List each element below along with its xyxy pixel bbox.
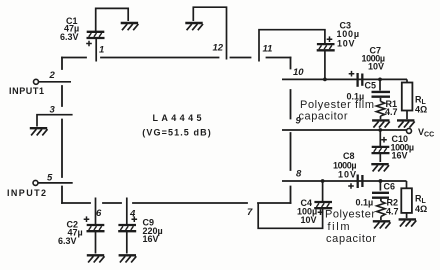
wire pin9 Vcc line [282,129,406,131]
svg-text:2: 2 [49,70,56,81]
ground C2 [87,255,105,262]
node pin10/C5 junction [378,78,382,82]
resistor R1 zigzag [376,101,384,116]
wire RL2 to ground [406,213,408,218]
svg-text:12: 12 [213,43,224,54]
svg-text:8: 8 [296,169,302,180]
IC LA4445 top edge [62,57,291,59]
capacitor C2 [87,225,105,231]
wire pin5 input2 [38,182,73,184]
plus C4 [318,209,324,215]
ground R1 [372,120,390,127]
plus C1 [86,41,92,47]
wire RL2 stub [406,181,408,188]
plus C10 [381,137,387,143]
svg-text:7: 7 [247,207,253,218]
svg-text:6.3V: 6.3V [60,32,79,42]
svg-text:11: 11 [263,44,273,55]
wire pin4 lead [126,198,128,225]
wire C6 lead [379,181,381,191]
wire C9 to ground [126,232,128,254]
svg-text:Polyester film: Polyester film [300,99,374,111]
svg-text:16V: 16V [392,151,408,161]
svg-text:4Ω: 4Ω [415,105,427,115]
svg-text:INPUT1: INPUT1 [9,86,44,96]
wire pin12 to ground2 [193,7,226,59]
svg-text:10V: 10V [301,215,317,225]
wire C10 to ground [379,154,381,163]
terminal INPUT2 [33,180,38,185]
wire C3 bottom to pin10 net [324,51,326,80]
node pin8/C4 junction [321,179,325,183]
svg-text:16V: 16V [143,234,159,244]
IC left edge [61,58,63,204]
ground R2 [373,221,391,228]
wire pin10 output net [282,78,407,80]
svg-text:INPUT2: INPUT2 [7,188,46,198]
wire pin8 output net [282,180,407,182]
plus C3 [327,36,333,42]
wire pin11 to C3 [259,30,325,62]
svg-text:3: 3 [50,105,56,116]
plus C7 [349,71,355,77]
svg-text:5: 5 [47,173,53,184]
svg-text:(VG=51.5 dB): (VG=51.5 dB) [142,128,211,138]
ground C10 [371,164,389,171]
svg-text:LA4445: LA4445 [153,113,204,123]
terminal INPUT1 [34,79,39,84]
svg-text:VCC: VCC [418,127,434,139]
resistor R2 zigzag [377,201,385,216]
wire C4 top lead [322,181,324,202]
node pin8/C6 junction [379,179,383,183]
svg-text:6: 6 [96,208,102,219]
svg-text:0.1µ: 0.1µ [356,198,374,208]
resistor RL2 box [401,188,412,213]
plus C8 [348,183,354,189]
wire C2 to ground [95,232,97,254]
resistor RL1 box [402,83,413,111]
wire C1 top to ground1 [96,8,129,31]
ground pin12 [185,23,203,30]
svg-text:Polyester: Polyester [325,209,375,221]
node Vcc/C10 junction [378,128,382,132]
svg-text:C5: C5 [365,81,377,91]
wire pin1 lead [95,39,97,62]
capacitor C10 [372,147,390,153]
node pin10/C3 junction [323,78,327,82]
ground RL1 [397,120,415,127]
ground C1 [121,23,139,30]
ground RL2 [399,219,417,226]
svg-text:6.3V: 6.3V [58,236,77,246]
wire pin2 input1 [39,81,71,83]
capacitor C7 series [358,73,363,87]
svg-text:4.7: 4.7 [386,207,399,217]
IC right edge [290,58,292,204]
wire RL1 stub [406,79,408,82]
capacitor C5 film [372,92,391,97]
capacitor C9 [118,225,136,231]
wire C6 to R2 [380,198,382,201]
wire C10 lead [379,130,381,146]
svg-text:10V: 10V [337,39,355,49]
svg-text:4Ω: 4Ω [415,204,427,214]
svg-text:100µ: 100µ [337,29,360,39]
svg-text:10: 10 [293,67,304,78]
svg-text:4: 4 [129,209,136,220]
svg-text:C8: C8 [343,151,355,161]
wire C4 bottom to pin7 [258,204,322,229]
capacitor C1 [87,32,105,38]
wire C5 to R1 [380,98,382,102]
svg-text:10V: 10V [368,62,384,72]
plus C9 [132,216,138,222]
svg-text:capacitor: capacitor [326,233,376,245]
ground C9 [119,255,137,262]
wire pin3 to ground [37,115,73,127]
wire C5 lead [379,79,381,90]
wire RL1 to ground [406,111,408,120]
IC bottom edge [62,202,291,204]
wire pin6 lead [95,198,97,225]
capacitor C6 film [372,193,389,198]
svg-text:C6: C6 [384,182,396,192]
svg-text:10V: 10V [338,170,356,180]
ground pin3 [30,128,48,135]
svg-text:film: film [328,221,350,233]
svg-text:capacitor: capacitor [299,111,348,123]
wire R2 to ground [380,217,382,221]
wire R1 to ground [380,116,382,119]
capacitor C4 [314,202,332,208]
svg-text:4.7: 4.7 [385,107,398,117]
capacitor C8 series [358,175,363,189]
svg-text:1: 1 [99,45,104,56]
capacitor C3 [317,44,335,50]
plus C2 [84,216,90,222]
terminal VCC [407,128,412,133]
